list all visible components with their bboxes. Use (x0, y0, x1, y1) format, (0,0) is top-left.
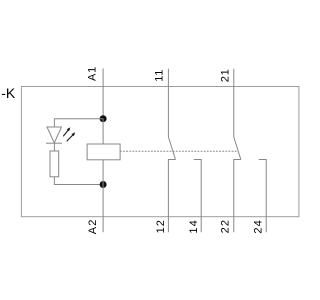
relay outline box -K (21, 87, 299, 217)
wire terminal 21 (233, 69, 235, 137)
LED diode triangle (47, 127, 62, 143)
resistor R (50, 151, 59, 177)
contact 12 hook (168, 160, 175, 233)
wire LED to resistor R (53, 143, 55, 151)
wire coil to bottom junction (102, 160, 104, 185)
wire terminal A2 (102, 185, 104, 233)
svg-text:A1: A1 (86, 66, 98, 81)
svg-text:11: 11 (153, 69, 165, 82)
LED cathode bar (46, 142, 62, 144)
wire terminal A1 (102, 69, 104, 119)
wire terminal 11 (167, 69, 169, 137)
svg-text:14: 14 (188, 219, 200, 233)
node junction bottom (100, 181, 107, 188)
svg-text:A2: A2 (87, 219, 99, 235)
svg-text:22: 22 (220, 219, 232, 233)
LED arrow 2 (67, 132, 75, 141)
svg-text:24: 24 (253, 219, 265, 233)
contact 24 hook (259, 160, 266, 233)
svg-text:-K: -K (1, 85, 16, 101)
wire junction to coil (102, 119, 104, 144)
wire resistor to bottom junction (54, 177, 103, 185)
contact blade 1 (168, 137, 175, 160)
contact 14 hook (194, 160, 201, 233)
svg-text:12: 12 (155, 219, 167, 233)
contact blade 2 (234, 137, 241, 160)
wire junction to LED branch top (54, 119, 103, 127)
svg-text:21: 21 (219, 68, 231, 82)
mechanical linkage dashed line (120, 150, 238, 152)
node junction top (100, 115, 107, 122)
relay coil K (87, 144, 120, 160)
LED arrow 1 (63, 127, 70, 136)
contact 22 hook (234, 160, 241, 233)
